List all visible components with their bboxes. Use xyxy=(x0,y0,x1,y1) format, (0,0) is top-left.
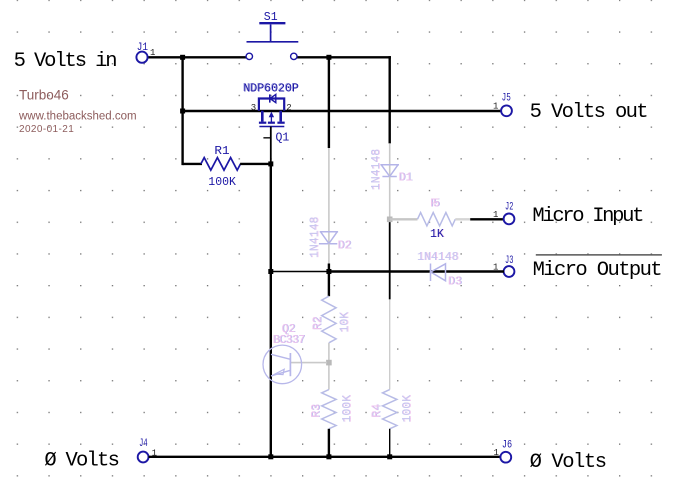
svg-text:1: 1 xyxy=(493,210,498,220)
svg-text:Ø Volts: Ø Volts xyxy=(44,450,120,473)
wire: 0V rail from J4 to J6 xyxy=(149,456,501,458)
junction at (270.8,456.8) xyxy=(268,454,273,459)
junction at (328.9,57.3) xyxy=(326,55,331,60)
resistor R4 (faded) xyxy=(383,390,397,429)
wire: Micro Output line from x=270.8 to x=328.9 (thin) xyxy=(271,271,329,273)
wire: vertical x=389.7 below gray junction down to y=299.4 xyxy=(389,222,391,299)
svg-text:J4: J4 xyxy=(139,438,148,450)
svg-text:3: 3 xyxy=(251,103,256,113)
svg-text:1N4148: 1N4148 xyxy=(370,149,383,191)
svg-text:1: 1 xyxy=(493,102,498,112)
wire: R1 left lead xyxy=(183,163,202,165)
svg-text:D3: D3 xyxy=(448,276,462,289)
wire: Micro Output line from x=328.9 to J3 xyxy=(329,270,504,272)
svg-text:Micro Input: Micro Input xyxy=(532,205,644,228)
faded wire: R2 bottom to base junction xyxy=(328,343,330,390)
svg-text:1N4148: 1N4148 xyxy=(309,216,322,258)
diode D2 (faded) xyxy=(319,232,338,244)
svg-text:Q1: Q1 xyxy=(276,131,290,144)
wire: R2 top lead (black) xyxy=(328,272,330,297)
svg-text:Ø Volts: Ø Volts xyxy=(530,451,608,474)
faded junction at (328.9,362.6) xyxy=(326,360,332,366)
wire: D2 cathode down to Micro Output line (black) xyxy=(328,244,330,264)
junction at (328.9,271.5) xyxy=(326,269,331,274)
svg-text:J3: J3 xyxy=(505,255,513,267)
connector J2 xyxy=(504,214,515,225)
svg-text:R2: R2 xyxy=(312,316,325,330)
connector J3 xyxy=(504,266,515,277)
diode D3 (faded) xyxy=(431,264,446,282)
svg-text:1: 1 xyxy=(494,448,499,458)
wire: vertical x=270.8 from R1 junction down to 0V rail xyxy=(270,164,272,457)
svg-text:J1: J1 xyxy=(137,42,149,54)
svg-text:2020-01-21: 2020-01-21 xyxy=(19,124,74,135)
wire: R1 right lead xyxy=(240,163,271,165)
svg-text:BC337: BC337 xyxy=(273,334,305,347)
svg-text:www.thebackshed.com: www.thebackshed.com xyxy=(18,110,137,122)
Q1 body diode xyxy=(270,94,276,102)
junction at (270.8,271.5) xyxy=(268,269,273,274)
svg-text:R1: R1 xyxy=(214,145,229,158)
svg-text:100K: 100K xyxy=(208,176,236,189)
svg-text:Turbo46: Turbo46 xyxy=(19,87,69,102)
wire: R4 bottom lead to 0V rail xyxy=(389,429,391,457)
diode D1 (faded) xyxy=(380,165,399,177)
svg-text:D1: D1 xyxy=(399,171,413,184)
wire: 5V-out horizontal y=111 from x=182.6 to J5 xyxy=(183,110,502,112)
wire: R3 bottom lead to 0V rail xyxy=(328,429,330,457)
junction at (270.8,163.9) xyxy=(268,161,273,166)
faded wire: x=389.7 from y=143.4 down to D1 anode xyxy=(389,143,391,176)
wire: J1 to S1 left contact (top rail y=57.3) xyxy=(148,56,247,58)
resistor R5 (faded) xyxy=(418,213,456,226)
faded wire: x=389.7 down to R4 xyxy=(389,299,391,389)
wire: Q1 gate lead down to R1 junction xyxy=(270,127,272,166)
connector J4 xyxy=(138,452,149,463)
wire: vertical x=182.6 from top rail down to R1 level xyxy=(181,57,183,165)
connector J6 xyxy=(500,452,511,463)
connector J1 xyxy=(136,52,147,63)
junction at (389.7,456.8) xyxy=(387,454,392,459)
Q1 gate pin tick xyxy=(263,137,270,139)
wire: R5 to J2 xyxy=(470,218,504,220)
junction at (182.6,57.3) xyxy=(180,55,185,60)
transistor Q1 (P-MOSFET) xyxy=(259,99,285,127)
svg-text:1K: 1K xyxy=(430,228,444,241)
junction at (182.6,111) xyxy=(180,109,185,114)
label S1 underline xyxy=(259,22,285,24)
wire: vertical x=389.7 top rail down to D1 xyxy=(389,56,391,143)
faded wire: x=328.9 from y=148 down to D2 anode xyxy=(328,148,330,244)
svg-text:5 Volts out: 5 Volts out xyxy=(530,101,649,124)
svg-text:2: 2 xyxy=(286,103,291,113)
wire: vertical x=328.9 top rail down to D2 (black upper part) xyxy=(328,57,330,148)
svg-text:R3: R3 xyxy=(310,404,323,418)
switch S1 xyxy=(246,25,298,60)
svg-text:1: 1 xyxy=(150,48,155,58)
svg-text:D2: D2 xyxy=(338,239,352,252)
svg-text:Micro Output: Micro Output xyxy=(533,259,663,282)
wire: S1 right contact to corner x=389.7 xyxy=(297,56,391,58)
junction at (328.9,456.8) xyxy=(326,454,331,459)
svg-text:NDP6020P: NDP6020P xyxy=(244,82,300,95)
svg-text:100K: 100K xyxy=(341,395,354,423)
faded wire: Q2 base lead xyxy=(290,362,327,364)
transistor Q2 BC337 (faded) xyxy=(263,345,302,384)
svg-text:10K: 10K xyxy=(339,312,352,333)
faded wire: R5 right lead xyxy=(455,218,470,220)
resistor R3 (faded) xyxy=(322,390,336,429)
svg-text:100K: 100K xyxy=(401,395,414,423)
connector J5 xyxy=(501,105,512,116)
svg-text:J6: J6 xyxy=(502,440,512,452)
faded junction at (389.7,219.3) xyxy=(387,217,393,223)
svg-text:J2: J2 xyxy=(505,202,513,214)
faded wire: junction to R5 left lead xyxy=(390,218,418,220)
svg-text:5 Volts in: 5 Volts in xyxy=(14,50,118,73)
resistor R2 (faded) xyxy=(322,296,336,343)
Micro Output overline xyxy=(536,254,662,256)
resistor R1 xyxy=(201,158,241,171)
faded wire: D1 cathode down to gray junction xyxy=(389,176,391,219)
svg-text:1N4148: 1N4148 xyxy=(417,251,459,264)
svg-text:J5: J5 xyxy=(502,92,511,104)
svg-text:F5: F5 xyxy=(430,198,440,211)
svg-text:R4: R4 xyxy=(371,404,384,418)
